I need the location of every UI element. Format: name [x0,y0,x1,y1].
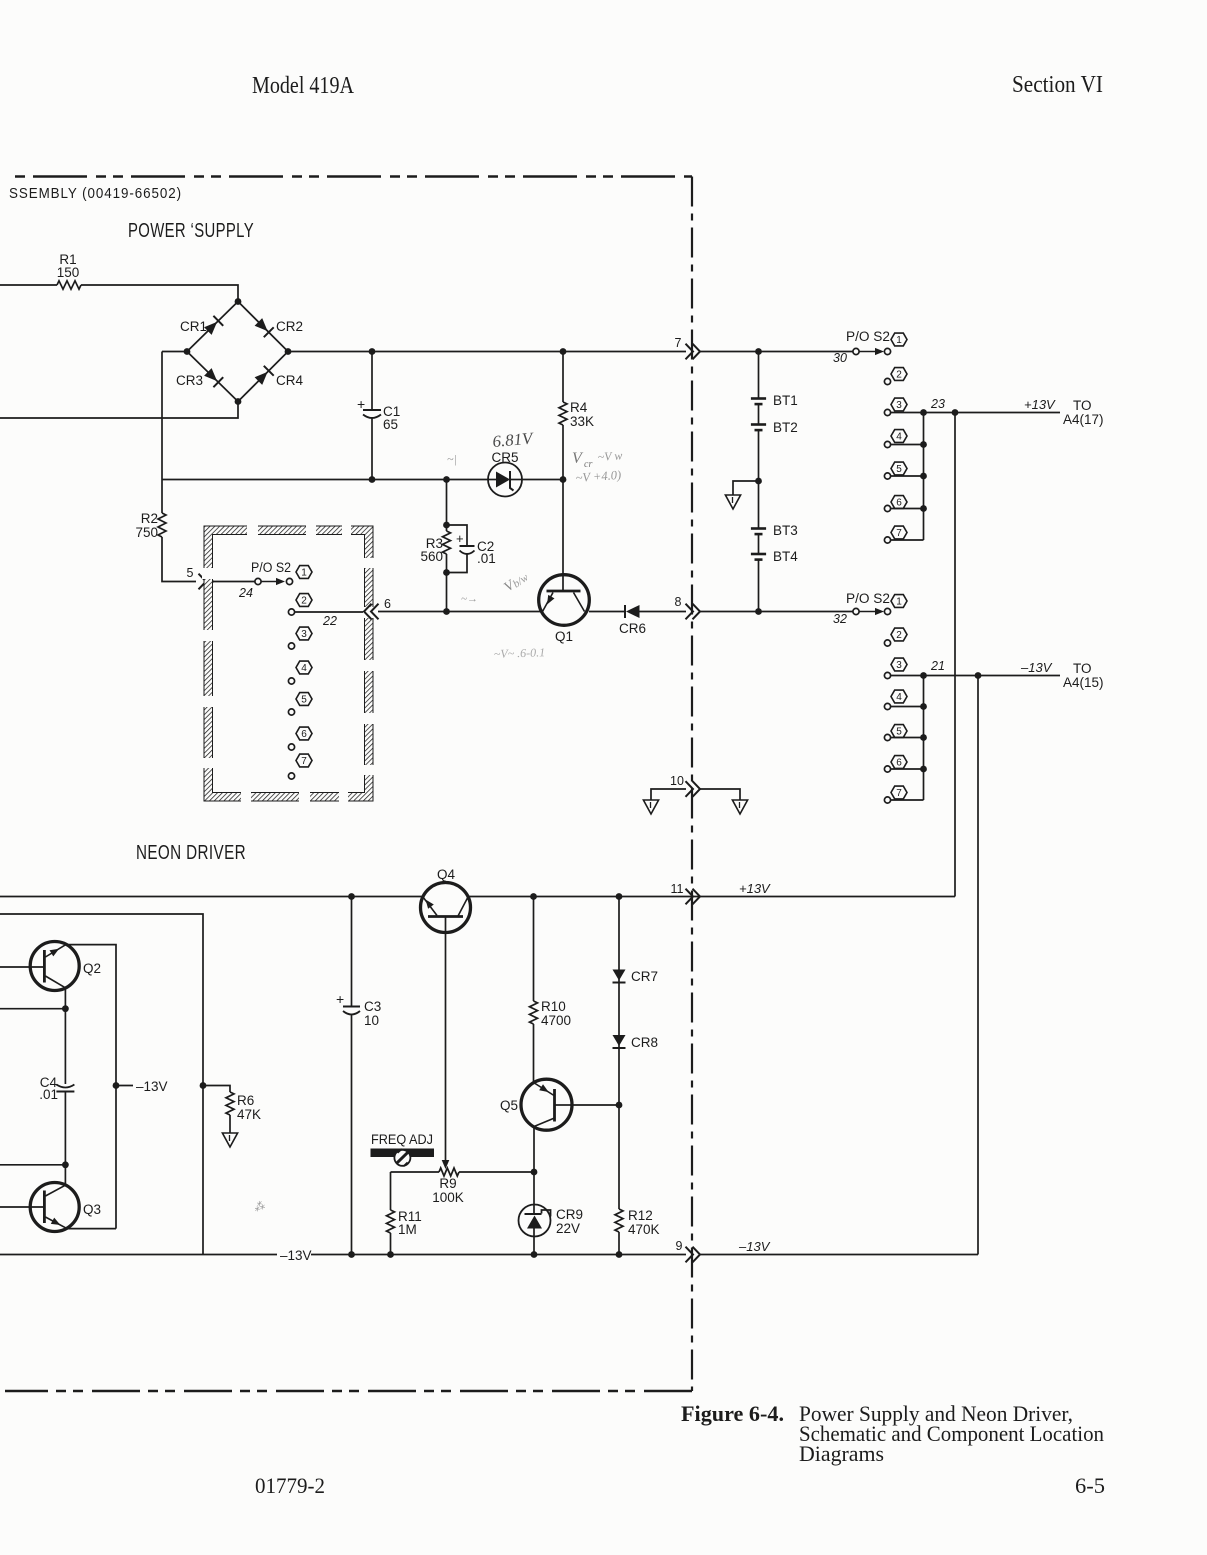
S2 section-C pin 1 hexagon [891,595,907,608]
node: R10 top [530,893,537,900]
svg-text:6-5: 6-5 [1075,1473,1105,1498]
wire: S2-B pins 4-7 bus [923,413,925,541]
FREQ ADJ adjustment slot bar [371,1149,435,1158]
svg-text:Figure 6-4.: Figure 6-4. [681,1401,784,1426]
switch wiper contact circle (30) [853,348,859,354]
node: R9 right / Q5 / CR9 junction [531,1169,538,1176]
battery BT1 [751,397,766,400]
resistor R3 [446,525,448,531]
node: +13V bus top [920,409,927,416]
svg-text:FREQ ADJ: FREQ ADJ [371,1131,433,1147]
wire: Q2/Q3 stage frame top [0,914,203,1255]
svg-text:24: 24 [238,586,253,600]
svg-text:10: 10 [670,774,684,788]
svg-text:~|: ~| [447,452,457,466]
node: C3 bottom [348,1251,355,1258]
wire: arrow 10 to ground (right) [699,789,740,800]
wire: bridge right node to +13V rail (pin 7) [288,351,686,353]
diode CR1 [204,322,217,335]
svg-text:+: + [336,991,344,1007]
wire: CR5 to R4 bottom node [522,479,563,481]
svg-text:7: 7 [675,336,682,350]
S2 section-A pin 6 hexagon [296,727,312,740]
node: -13V tap on frame [200,1082,207,1089]
wire: battery stack segments [758,352,760,399]
node: battery stack bottom junction [755,608,762,615]
ground (battery centre tap) [725,495,740,509]
S2 section-B pin 6 contact circle [884,505,890,511]
node: -13V bus top [920,672,927,679]
node: pin 4 on bus [920,441,927,448]
svg-text:P/O S2: P/O S2 [251,560,291,575]
S2 section-A pin 2 contact circle [288,609,294,615]
wire: Q5 collector down to R9 node [533,1127,535,1205]
wire: pin 5 stub [891,475,924,477]
svg-text:CR2: CR2 [276,319,303,334]
wire: left rail down to CR5 bus [161,352,163,480]
svg-text:2: 2 [896,630,902,641]
S2 section-A pin 6 contact circle [288,744,294,750]
svg-text:21: 21 [930,659,945,673]
svg-text:POWER ‘SUPPLY: POWER ‘SUPPLY [128,219,254,242]
svg-text:A4(17): A4(17) [1063,412,1104,427]
S2 section-A pin 4 contact circle [288,678,294,684]
svg-text:23: 23 [930,397,945,411]
S2 section-A pin 2 hexagon [296,594,312,607]
S2 section-C pin 5 hexagon [891,725,907,738]
S2 section-C pin 4 hexagon [891,690,907,703]
diode CR8 [613,1035,626,1046]
switch wiper arrow to S2 pin 1 (32) [860,611,877,613]
svg-text:1: 1 [301,568,307,579]
diode CR4 [255,372,268,385]
wire: S2-B pin 3 to +13V takeoff [891,412,956,414]
wire: bridge left node to left rail [162,351,187,353]
svg-text:P/O S2: P/O S2 [846,329,890,344]
svg-text:CR5: CR5 [491,450,518,465]
svg-text:CR4: CR4 [276,373,303,388]
node: C1 top junction [369,348,376,355]
wire: -13V rail (middle) [311,1254,686,1256]
S2 section-B pin 2 contact circle [884,378,890,384]
S2 section-C pin 7 hexagon [891,786,907,799]
svg-text:cr: cr [584,459,592,470]
wire: -13V to A4(15) [978,675,1060,677]
svg-text:CR7: CR7 [631,969,658,984]
svg-text:R2: R2 [141,511,158,526]
svg-text:5: 5 [301,695,307,706]
svg-text:22: 22 [322,614,337,628]
switch wiper contact circle (24) [255,578,261,584]
S2 section-C pin 1 contact circle [884,608,890,614]
svg-text:1M: 1M [398,1222,417,1237]
svg-text:BT4: BT4 [773,549,798,564]
svg-text:–13V: –13V [1020,660,1053,675]
S2 section-C pin 7 contact circle [884,797,890,803]
wire: +13V rail of neon driver (left) [0,896,423,898]
S2 section-B pin 5 contact circle [884,473,890,479]
node: pin 5 on bus [920,473,927,480]
svg-text:R10: R10 [541,999,566,1014]
wire: pin 6 stub (lower) [891,768,924,770]
S2 section-B pin 1 contact circle [884,348,890,354]
S2 section-A pin 1 contact circle [286,578,292,584]
svg-text:Diagrams: Diagrams [799,1441,884,1466]
S2 section-A pin 7 hexagon [296,754,312,767]
svg-text:22V: 22V [556,1221,580,1236]
svg-text:Model 419A: Model 419A [252,73,355,99]
node: pin 6 on lower bus [920,766,927,773]
svg-text:5: 5 [187,566,194,580]
svg-text:30: 30 [833,351,847,365]
node: R4 top junction [560,348,567,355]
capacitor C3 [351,897,353,1007]
wire: pin 5 stub (lower) [891,737,924,739]
wire: Q2 collector down [64,988,66,1009]
assembly boundary dash-dot border (right edge) [691,177,693,1392]
node: R4 bottom / Q1 collector junction [560,476,567,483]
svg-text:4: 4 [896,692,902,703]
wire: CR5 bus down to R3/C2 [446,480,448,526]
node: pin 4 on lower bus [920,703,927,710]
svg-text:47K: 47K [237,1107,261,1122]
svg-text:6: 6 [896,758,902,769]
switch wiper contact circle (32) [853,608,859,614]
svg-text:6: 6 [384,597,391,611]
S2 section-B pin 2 hexagon [891,368,907,381]
node: battery stack top junction [755,348,762,355]
R9 wiper arrow [442,1160,450,1169]
svg-text:BT3: BT3 [773,523,798,538]
ground (R6) [222,1133,237,1147]
svg-text:8: 8 [675,595,682,609]
node: bridge right (DC plus) [285,348,292,355]
S2 section-B pin 5 hexagon [891,462,907,475]
wire: bridge arm top-left [187,302,238,352]
svg-text:CR1: CR1 [180,319,207,334]
node: R3/C2 parallel top [443,522,450,529]
svg-text:R4: R4 [570,400,588,415]
wire: left edge to Q2 collector node [0,1008,65,1010]
svg-text:~V~ .6-0.1: ~V~ .6-0.1 [494,645,546,661]
S2 section-A pin 5 hexagon [296,693,312,706]
svg-text:Q3: Q3 [83,1202,101,1217]
breakdown diode CR5 [488,463,522,497]
wire: pin 7 stub (lower) [891,799,924,801]
wire: bridge arm top-right [238,302,288,352]
S2 section-B pin 4 hexagon [891,430,907,443]
S2 section-C pin 6 contact circle [884,766,890,772]
assembly boundary dashed border (top edge) [15,175,692,178]
svg-text:4: 4 [301,663,307,674]
resistor R11 [390,1172,392,1210]
svg-text:Q1: Q1 [555,629,573,644]
node: R3/C2 top junction [443,476,450,483]
svg-text:CR9: CR9 [556,1207,583,1222]
wire: S2 pin 2 to arrow 6 [295,611,364,613]
svg-text:+13V: +13V [1024,397,1056,412]
svg-text:7: 7 [301,756,307,767]
S2 section-C pin 6 hexagon [891,756,907,769]
svg-text:4: 4 [896,432,902,443]
S2 section-A pin 7 contact circle [288,773,294,779]
arrow 5 (into switch section) [199,574,207,590]
resistor R6 [226,1092,234,1115]
svg-text:A4(15): A4(15) [1063,675,1104,690]
switch wiper arrow to S2 pin 1 [262,581,278,583]
svg-text:C3: C3 [364,999,381,1014]
svg-text:01779-2: 01779-2 [255,1473,325,1498]
wire: Q5 base to CR8/R12 node [570,1104,619,1106]
transistor Q2 [30,942,79,991]
S2 section-A pin 3 contact circle [288,643,294,649]
node: CR7 top [616,893,623,900]
svg-text:7: 7 [896,788,902,799]
svg-text:–13V: –13V [738,1239,771,1254]
svg-text:470K: 470K [628,1222,660,1237]
node: Q5 base / CR8 / R12 junction [616,1102,623,1109]
S2 section-C pin 3 hexagon [891,658,907,671]
arrow 11 (interconnect +13V) [686,889,694,905]
svg-text:4700: 4700 [541,1013,571,1028]
wire: -13V vertical feed to neon driver [977,676,979,1255]
S2 section-C pin 5 contact circle [884,734,890,740]
svg-text:.01: .01 [477,551,496,566]
capacitor C1 [371,352,373,411]
transistor Q3 [30,1183,79,1232]
ground (arrow 10 right) [732,800,747,814]
svg-text:750: 750 [135,525,158,540]
svg-text:R6: R6 [237,1093,254,1108]
S2 section-B pin 4 contact circle [884,441,890,447]
svg-text:TO: TO [1073,398,1092,413]
potentiometer R9 [391,1171,440,1173]
svg-text:P/O S2: P/O S2 [846,591,890,606]
svg-text:3: 3 [301,629,307,640]
svg-text:5: 5 [896,464,902,475]
node: bridge left (DC minus) [184,348,191,355]
wire: arrow 5 to switch wiper 24 [213,581,255,583]
node: emitter bus -13V tap [113,1082,120,1089]
node: CR9 bottom [531,1251,538,1258]
svg-text:6.81V: 6.81V [492,428,535,451]
svg-text:5: 5 [896,727,902,738]
transistor Q5 [521,1079,572,1130]
wire: R1 to bridge top corner [81,285,238,302]
node: bridge bottom (AC return) [235,398,242,405]
node: battery centre tap [755,478,762,485]
S2 section-B pin 3 contact circle [884,409,890,415]
wire: CR6 to arrow 8 [640,611,687,613]
wire: CR7/CR8 string [618,897,620,1106]
diode CR7 [613,970,626,981]
svg-text:Q5: Q5 [500,1098,518,1113]
svg-text:150: 150 [57,265,80,280]
wire: Q3 collector up to node [64,1165,66,1185]
svg-text:R9: R9 [439,1176,456,1191]
S2 section-C pin 2 contact circle [884,640,890,646]
wire: -13V rail to right feed [699,1254,978,1256]
node: Q3 collector junction [62,1161,69,1168]
assembly boundary dashed border (bottom edge) [5,1390,692,1393]
FREQ ADJ screwdriver circle [394,1150,410,1166]
wire: pin 4 stub [891,444,924,446]
hatched shield box around S2 contacts [204,526,373,801]
breakdown diode CR9 [519,1205,551,1237]
wire: +13V to A4(17) [955,412,1060,414]
svg-text:32: 32 [833,612,847,626]
S2 section-B pin 3 hexagon [891,398,907,411]
svg-text:CR3: CR3 [176,373,203,388]
arrow 8 (interconnect) [686,604,694,620]
svg-text:CR8: CR8 [631,1035,658,1050]
svg-text:TO: TO [1073,661,1092,676]
wire: +13V rail of neon driver (right) [468,896,955,898]
svg-text:11: 11 [671,882,684,896]
battery BT2 [751,423,766,426]
S2 section-A pin 5 contact circle [288,709,294,715]
wire: +13V rail inside to battery node [699,351,856,353]
wire: pin 7 stub [891,539,924,541]
svg-text:1: 1 [896,335,902,346]
S2 section-A pin 4 hexagon [296,661,312,674]
svg-text:+: + [456,531,464,546]
svg-text:10: 10 [364,1013,379,1028]
wire: bridge bottom to left edge (AC return) [0,402,238,419]
node: bridge top (AC input) [235,298,242,305]
svg-text:R12: R12 [628,1208,653,1223]
wire: bridge arm bottom-right [238,352,288,402]
switch wiper arrow to S2 pin 1 (30) [860,351,877,353]
node: C1 bottom junction [369,476,376,483]
wire: S2-C pins 4-7 bus [923,676,925,801]
node: pin 5 on lower bus [920,734,927,741]
wire: Q4 base down to R9 wiper [445,917,447,1162]
capacitor C4 [64,1009,66,1084]
S2 section-B pin 6 hexagon [891,496,907,509]
capacitor C2 branch [447,525,468,546]
svg-text:~V w: ~V w [597,448,623,464]
node: R11 bottom [387,1251,394,1258]
S2 section-A pin 1 hexagon [296,566,312,579]
wire: bridge arm bottom-left [187,352,238,402]
wire: -13V stub [116,1085,133,1087]
svg-text:1: 1 [896,597,902,608]
svg-text:7: 7 [896,528,902,539]
wire: arrow 6 to Q1 emitter bus [378,611,540,613]
resistor R12 [618,1105,620,1209]
node: pin 6 on bus [920,505,927,512]
svg-text:+: + [357,396,365,412]
battery BT4 [751,553,766,556]
svg-text:+13V: +13V [739,881,771,896]
wire: centre tap to ground [733,481,759,495]
arrow 9 (interconnect -13V) [686,1247,694,1263]
node: R3/C2 parallel bottom [443,569,450,576]
wire: Q2 emitter to emitter bus [66,945,116,1229]
wire: left edge to Q3 collector node [0,1164,65,1166]
svg-text:2: 2 [301,596,307,607]
node: Q2 collector junction [62,1005,69,1012]
node: R3/C2 bottom junction on Q1 bus [443,608,450,615]
svg-text:–13V: –13V [280,1248,312,1263]
svg-text:100K: 100K [432,1190,464,1205]
svg-text:~→: ~→ [461,593,478,605]
node: C3 top [348,893,355,900]
wire: pin 6 stub [891,508,924,510]
S2 section-C pin 3 contact circle [884,672,890,678]
battery BT3 [751,527,766,530]
wire: Q1 collector to CR6 [589,611,624,613]
arrow 10 (interconnect) [686,781,694,797]
svg-text:Q2: Q2 [83,961,101,976]
node: +13V line junction [952,409,959,416]
arrow 6 (from switch to Q1 base bus) [371,604,379,620]
svg-text:560: 560 [420,549,443,564]
wire: Q3 emitter to emitter bus [67,1228,116,1230]
arrow 7 (interconnect to A2 assembly) [686,344,694,360]
svg-text:9: 9 [676,1239,683,1253]
wire: +13V vertical feed to neon driver [954,413,956,897]
transistor Q4 [421,883,471,933]
wire: -8V bus inside to battery node [699,611,856,613]
node: R12 bottom [616,1251,623,1258]
resistor R4 [562,352,564,403]
S2 section-C pin 4 contact circle [884,703,890,709]
svg-text:3: 3 [896,660,902,671]
svg-text:–13V: –13V [136,1079,168,1094]
resistor R1 [57,281,81,289]
S2 section-C pin 2 hexagon [891,628,907,641]
svg-text:2: 2 [896,370,902,381]
wire: -13V rail (left) [0,1254,277,1256]
svg-text:BT2: BT2 [773,420,798,435]
wire: S2-C pin 3 to -13V takeoff [891,675,979,677]
svg-text:65: 65 [383,417,398,432]
wire: parallel bottom to Q1 bus [446,573,448,612]
resistor R10 [533,897,535,1002]
svg-text:NEON DRIVER: NEON DRIVER [136,841,246,864]
svg-text:Section VI: Section VI [1012,72,1103,98]
svg-text:33K: 33K [570,414,594,429]
svg-text:BT1: BT1 [773,393,798,408]
wire: ground to arrow 10 (left) [651,789,686,800]
S2 section-A pin 3 hexagon [296,627,312,640]
svg-text:CR6: CR6 [619,621,646,636]
node: -13V line junction [975,672,982,679]
svg-text:.01: .01 [39,1087,58,1102]
S2 section-B pin 1 hexagon [891,333,907,346]
svg-text:SSEMBLY (00419-66502): SSEMBLY (00419-66502) [9,186,182,202]
wire: pin 4 stub (lower) [891,706,924,708]
svg-text:3: 3 [896,400,902,411]
svg-text:6: 6 [301,729,307,740]
diode CR2 [255,318,268,331]
resistor R2 [161,480,163,514]
wire: CR5 reference bus (left rail to CR5) [162,479,488,481]
S2 section-B pin 7 contact circle [884,537,890,543]
S2 section-B pin 7 hexagon [891,526,907,539]
wire: left edge to R1 [0,284,57,286]
diode CR3 [204,368,217,381]
diode CR6 [624,605,626,618]
svg-text:Q4: Q4 [437,867,456,882]
wire: frame to R6 [203,1086,230,1093]
svg-text:6: 6 [896,498,902,509]
transistor Q1 [539,575,590,626]
ground (arrow 10 left) [643,800,658,814]
